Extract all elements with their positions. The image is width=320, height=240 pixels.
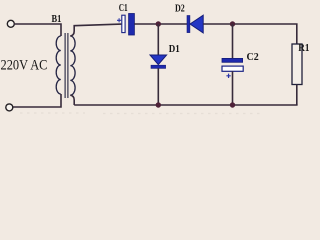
svg-text:R1: R1: [298, 43, 309, 54]
node junction top at C2: [230, 21, 235, 26]
resistor R1: [292, 44, 302, 85]
diode D2 triangle: [190, 15, 203, 33]
capacitor C1 plus sign: [117, 18, 121, 22]
wire down to D1: [157, 24, 159, 55]
wire secondary bottom to rail: [70, 95, 74, 105]
node junction bottom at C2: [230, 102, 235, 107]
capacitor C2 bottom plate (hollow): [222, 66, 243, 71]
capacitor C2 top plate (solid): [222, 58, 243, 62]
diode D2 cathode bar: [187, 16, 190, 33]
svg-text:B1: B1: [52, 14, 62, 25]
transformer B1 secondary winding: [70, 36, 75, 95]
wire secondary top to C1: [70, 24, 121, 36]
svg-text:C2: C2: [247, 52, 259, 63]
terminal top-left: [7, 20, 14, 27]
capacitor C1 negative plate (solid): [129, 14, 135, 36]
svg-text:C1: C1: [119, 3, 128, 14]
capacitor C1 positive plate (hollow): [122, 15, 125, 32]
transformer B1 primary winding: [56, 36, 61, 94]
diode D1 cathode bar: [151, 65, 166, 68]
wire C2 to bottom rail: [232, 71, 234, 105]
svg-text:220V AC: 220V AC: [1, 57, 48, 73]
wire D2 to right corner: [203, 24, 297, 44]
faint scan residue under bottom rail: [20, 112, 85, 114]
wire down to C2: [232, 24, 234, 58]
svg-text:D2: D2: [175, 4, 185, 15]
bottom rail wire: [74, 104, 297, 106]
transformer core: [64, 33, 66, 98]
node junction bottom at D1: [156, 102, 161, 107]
svg-text:D1: D1: [169, 44, 180, 55]
wire C1 to D2: [134, 23, 187, 25]
wire D1 to bottom rail: [157, 68, 159, 105]
diode D1 triangle: [150, 55, 167, 65]
node junction top at D1: [156, 21, 161, 26]
terminal bottom-left: [6, 104, 13, 111]
wire primary bottom to terminal: [13, 94, 61, 107]
wire R1 to bottom rail: [296, 85, 298, 106]
capacitor C2 plus sign: [226, 74, 230, 78]
wire top-left to transformer: [14, 24, 61, 36]
